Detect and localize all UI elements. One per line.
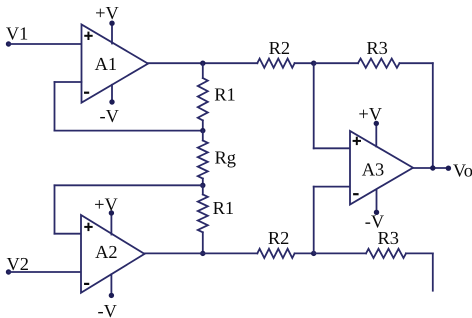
A1 + input marker: [84, 32, 92, 40]
node Vo output terminal: [446, 166, 451, 171]
wire R3 reference stub down: [432, 253, 434, 290]
wire A3 output to Vo: [413, 167, 449, 169]
svg-text:Rg: Rg: [214, 148, 235, 168]
wire A1 +V supply pin: [111, 23, 113, 43]
node V2 input terminal: [6, 269, 11, 274]
A2 +V terminal: [109, 210, 114, 215]
svg-text:-V: -V: [97, 301, 117, 318]
resistor R1 (bottom): [198, 195, 208, 233]
svg-text:A2: A2: [95, 242, 117, 262]
resistor R2 (bottom): [257, 249, 294, 258]
wire A2 feedback left vertical: [54, 185, 56, 233]
svg-text:V1: V1: [6, 24, 28, 44]
wire Rg to node: [202, 179, 204, 186]
svg-text:A3: A3: [362, 159, 384, 179]
svg-text:Vo: Vo: [453, 160, 472, 180]
wire A3 +V supply pin: [375, 123, 377, 146]
wire node to Rg: [202, 131, 204, 141]
node R2/R3 bottom junction: [311, 251, 316, 256]
wire R1 to node: [202, 120, 204, 130]
wire R3 to right corner: [406, 252, 433, 254]
node Rg/R1 junction: [200, 183, 205, 188]
wire node up to A3 - input: [313, 187, 315, 254]
wire R3 feedback vertical to output: [432, 63, 434, 168]
wire A3 + input: [314, 147, 350, 149]
wire R1 to bottom rail: [202, 232, 204, 253]
A1 - input marker: [84, 92, 89, 94]
svg-text:R2: R2: [269, 38, 290, 58]
wire to R1 top: [202, 63, 204, 78]
A3 -V terminal: [374, 210, 379, 215]
wire A1 feedback bottom horizontal: [55, 130, 203, 132]
wire A1 - input: [55, 81, 82, 83]
wire V2 to A2 - input: [9, 271, 82, 273]
wire A2 feedback top horizontal: [55, 184, 203, 186]
svg-text:R1: R1: [213, 198, 234, 218]
wire A2 -V supply pin: [110, 274, 112, 295]
node A3 output / R3 feedback junction: [430, 165, 435, 170]
wire node to R3: [314, 252, 366, 254]
op-amp A1: [82, 25, 149, 103]
svg-text:V2: V2: [7, 254, 29, 274]
resistor R3 (bottom): [366, 249, 406, 258]
node R2/R3 top junction: [311, 61, 316, 66]
wire R2 to node: [295, 252, 314, 254]
wire R3 to right corner: [400, 62, 433, 64]
op-amp A2: [81, 215, 145, 293]
wire R2 to node: [295, 62, 314, 64]
wire node down to A3 + input: [313, 63, 315, 148]
svg-text:+V: +V: [95, 3, 119, 23]
A2 - input marker: [84, 283, 89, 285]
node R1/Rg junction: [200, 128, 205, 133]
A1 +V terminal: [109, 21, 114, 26]
wire A1 output to R2: [148, 62, 257, 64]
wire node to R3: [314, 62, 358, 64]
wire A3 - input: [314, 186, 350, 188]
wire A2 + input: [55, 233, 82, 235]
wire A1 feedback left vertical: [54, 82, 56, 131]
A3 + input marker: [353, 137, 361, 145]
resistor R1 (top): [198, 78, 208, 120]
A1 -V terminal: [109, 99, 114, 104]
wire node to R1 bottom: [202, 185, 204, 194]
svg-text:+V: +V: [358, 104, 382, 124]
wire A2 +V supply pin: [110, 213, 112, 235]
wire A1 -V supply pin: [111, 85, 113, 102]
op-amp A3: [350, 131, 413, 205]
svg-text:+V: +V: [94, 195, 118, 215]
svg-text:R3: R3: [366, 38, 387, 58]
node A1 output / R1 top: [200, 61, 205, 66]
wire A2 output to R2: [145, 252, 258, 254]
A3 +V terminal: [374, 121, 379, 126]
A2 + input marker: [84, 223, 92, 231]
A3 - input marker: [353, 193, 359, 195]
wire A3 -V supply pin: [376, 190, 378, 213]
svg-text:R1: R1: [214, 85, 235, 105]
svg-text:A1: A1: [95, 54, 117, 74]
svg-text:-V: -V: [99, 106, 119, 126]
node A2 output / R1 bottom: [200, 251, 205, 256]
resistor R2 (top): [257, 59, 294, 68]
resistor Rg: [198, 141, 208, 179]
wire V1 to A1 + input: [9, 43, 82, 45]
svg-text:-V: -V: [365, 212, 385, 232]
A2 -V terminal: [109, 293, 114, 298]
resistor R3 (top): [358, 59, 400, 68]
svg-text:R2: R2: [268, 228, 289, 248]
node V1 input terminal: [6, 41, 11, 46]
